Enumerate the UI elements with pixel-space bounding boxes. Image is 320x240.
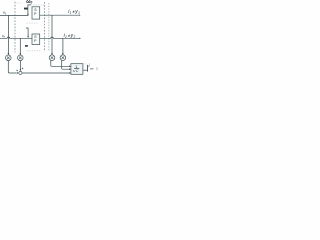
dashed control line row3 <box>27 50 41 52</box>
dark bar A (left of box1 top) <box>24 8 28 10</box>
multiplier circle 2 <box>18 55 24 61</box>
integrator box <box>71 64 83 75</box>
dashed control line row1 <box>31 4 44 6</box>
wire u1 <box>0 14 28 16</box>
integrator input arrow top <box>69 66 71 68</box>
background <box>0 0 100 79</box>
converter box 2 <box>32 34 40 45</box>
multiplier 1 output wire to summer <box>8 61 18 74</box>
omega0 feed wire <box>27 5 31 16</box>
multiplier circle 4 <box>60 55 66 61</box>
row2 feed wire <box>26 28 29 38</box>
plus sign left of summer <box>16 70 18 72</box>
svg-text:s·C: s·C <box>73 69 79 73</box>
output wire 1 <box>40 15 81 16</box>
svg-text:ω0: ω0 <box>26 0 32 5</box>
integrator output wire <box>83 69 88 71</box>
drop to multiplier 1 <box>8 15 10 55</box>
boundary dashed line mid-right <box>48 3 50 52</box>
sum output wire to integrator <box>22 72 70 74</box>
boundary dashed line mid-left <box>43 2 45 52</box>
node label omega0 <box>26 0 32 5</box>
boundary dashed line left <box>14 2 16 53</box>
multiplier circle 1 <box>6 55 12 61</box>
converter box 1 <box>32 7 40 19</box>
multiplier 4 output wire <box>62 60 70 69</box>
output terminal bar <box>86 65 88 72</box>
drop to multiplier 2 <box>20 38 22 55</box>
multiplier 3 output wire <box>51 60 70 66</box>
integrator input arrow bottom <box>69 72 71 74</box>
multiplier 2 output wire to summer <box>20 61 22 72</box>
output label <box>89 63 99 70</box>
faint mark above integrator corner <box>84 63 86 66</box>
wire u2 with hop over multiplier-1 drop <box>0 37 32 38</box>
summing junction <box>19 71 22 74</box>
dark bar B (left of box2 bottom) <box>25 45 28 47</box>
output wire 2 with hop over multiplier-3 drop <box>40 37 81 39</box>
integrator input arrow middle <box>69 68 71 70</box>
drop to multiplier 4 <box>62 38 64 55</box>
dashed control line row2 <box>27 22 39 24</box>
drop to multiplier 3 <box>51 15 53 55</box>
plus sign above summer <box>22 68 24 70</box>
small gray dots top-left <box>16 2 22 4</box>
multiplier circle 3 <box>49 55 55 61</box>
